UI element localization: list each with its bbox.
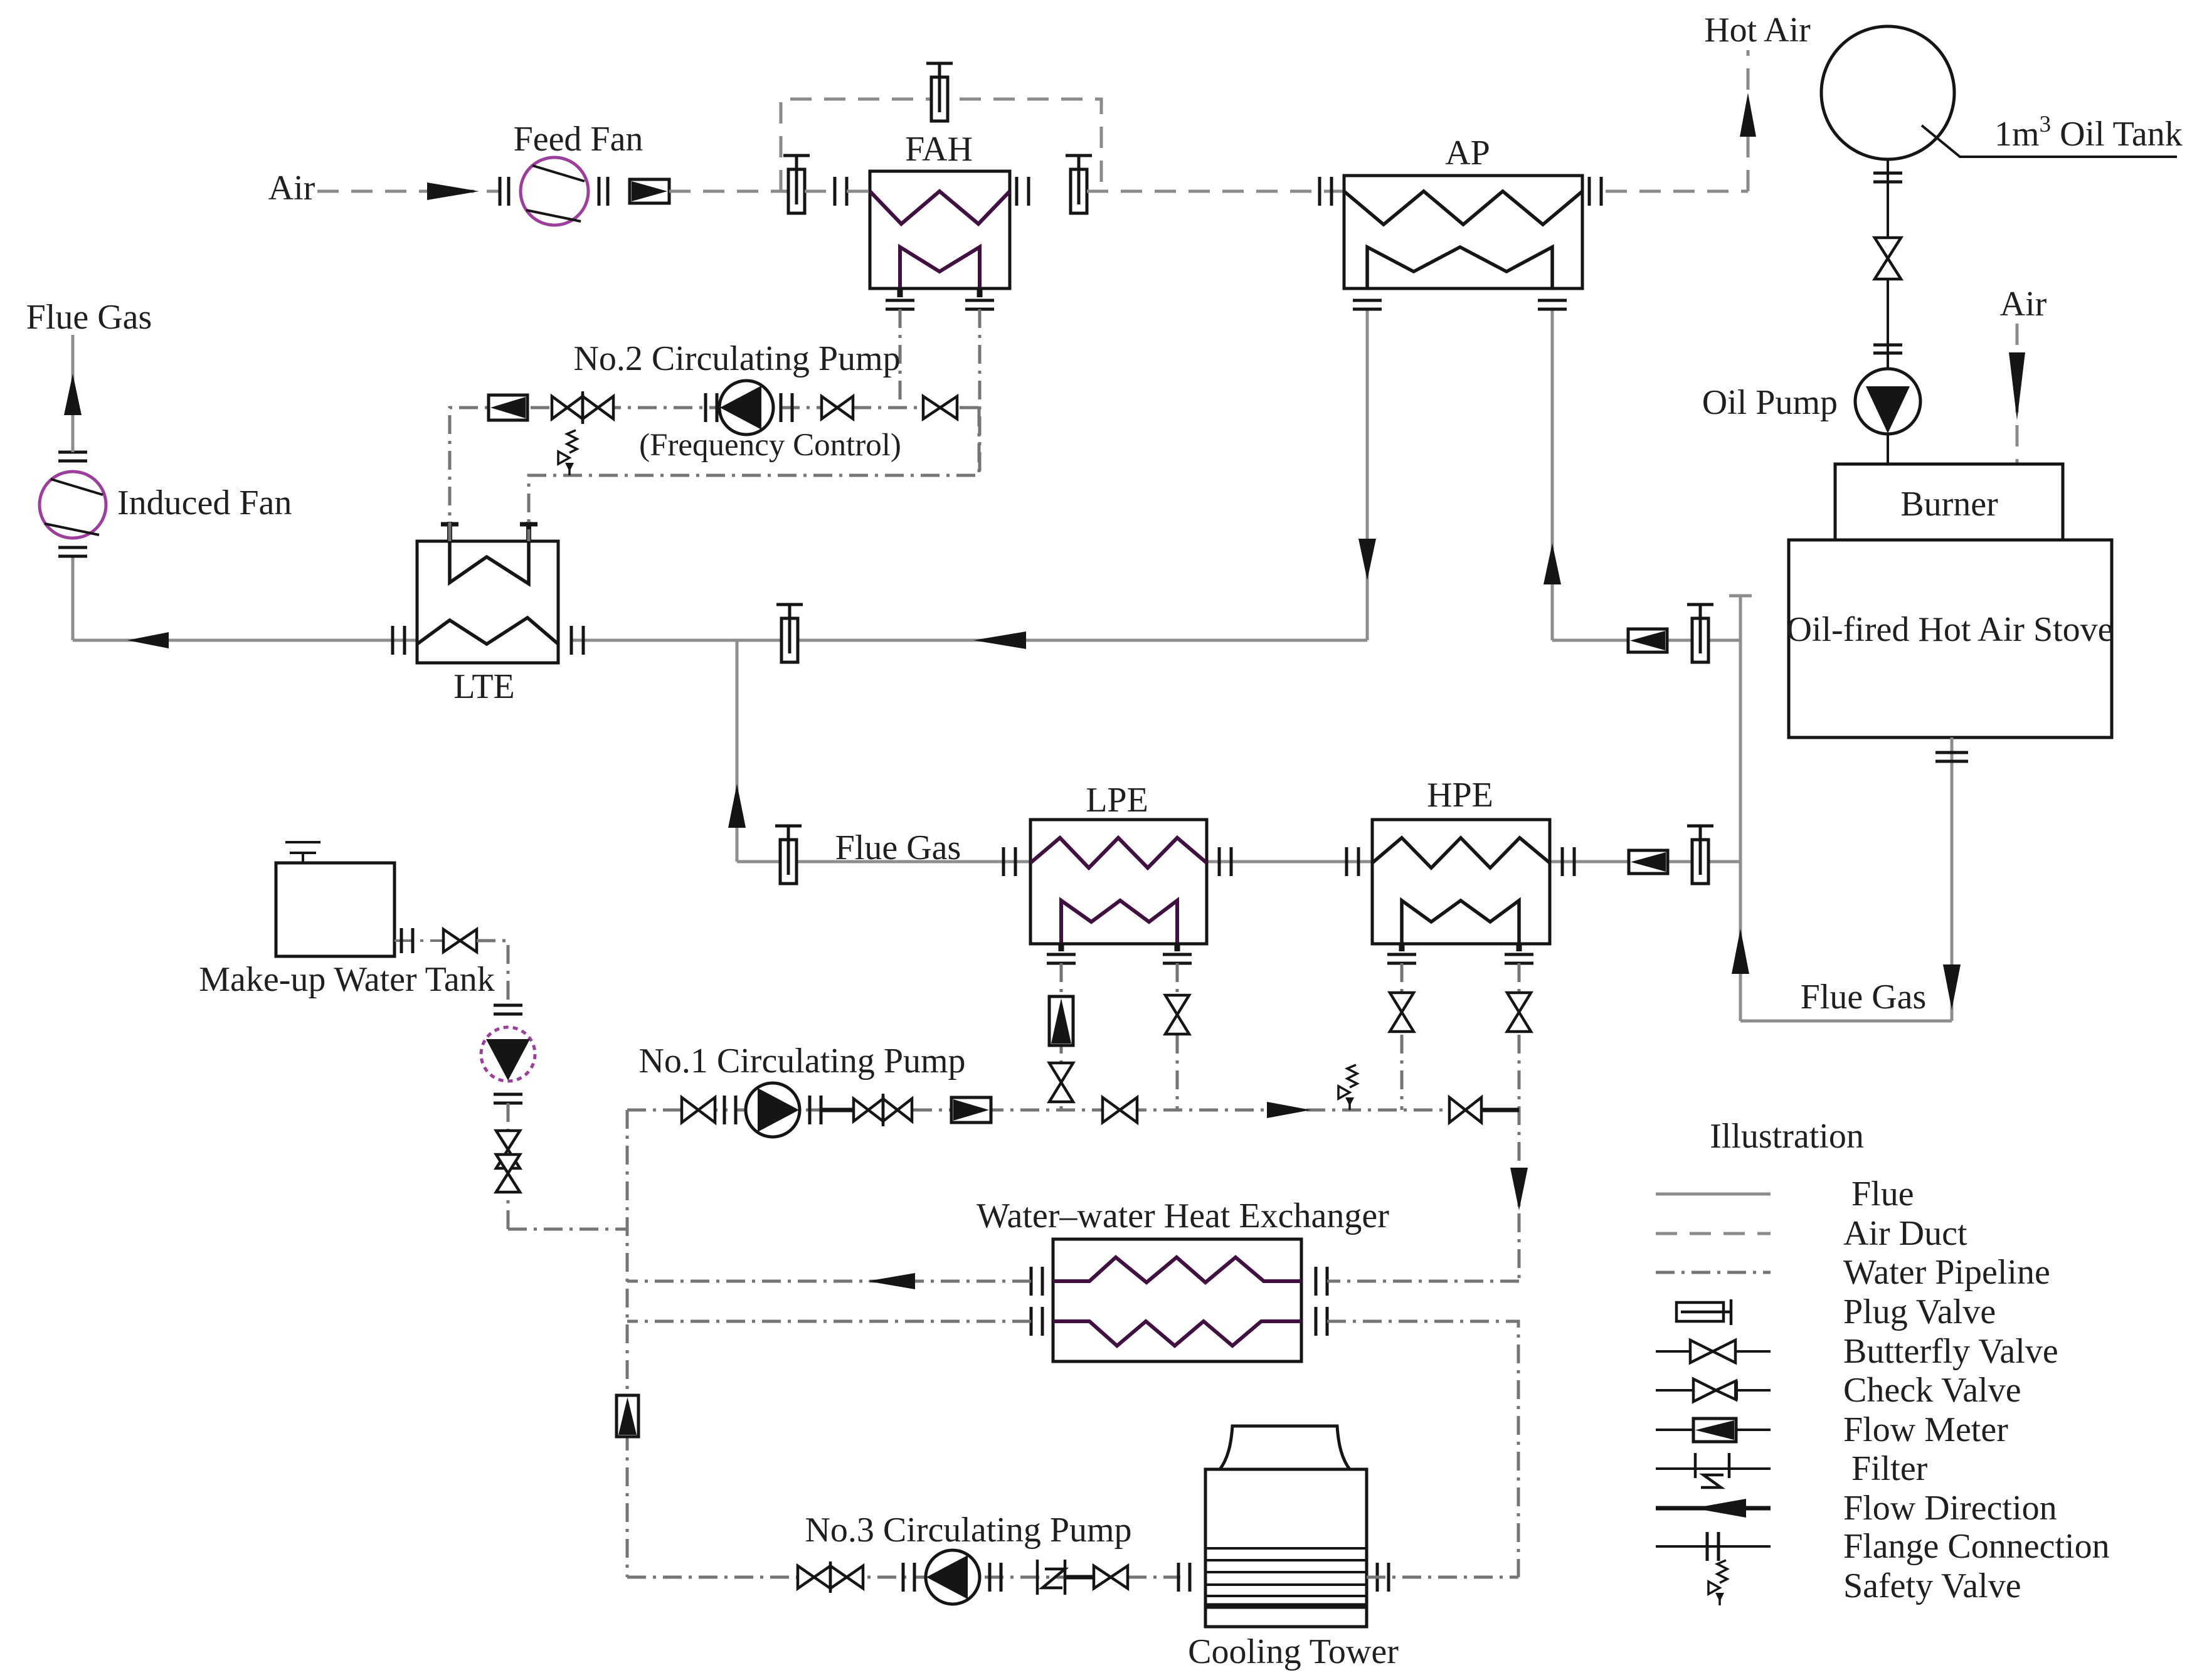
wire flue lower mid <box>1207 860 1372 864</box>
flange connection <box>1873 173 1902 182</box>
flow meter <box>1049 996 1073 1045</box>
AP air coil <box>1367 247 1552 288</box>
legend label Safety Valve <box>1843 1566 2021 1605</box>
wire water WWHE hot out <box>627 1280 1031 1283</box>
label No.2 Circulating Pump <box>573 339 900 378</box>
label Hot Air <box>1704 11 1811 50</box>
valve butterfly <box>443 929 477 952</box>
valve butterfly pair <box>854 1094 912 1126</box>
svg-text:AP: AP <box>1445 134 1490 172</box>
label Water-water Heat Exchanger <box>977 1197 1389 1235</box>
svg-text:Oil-fired Hot Air Stove: Oil-fired Hot Air Stove <box>1786 610 2113 649</box>
legend label Flow Meter <box>1843 1410 2008 1449</box>
flow direction arrow <box>1510 1168 1528 1210</box>
legend water pipeline symbol <box>1656 1271 1771 1274</box>
node HPE nozzle ticks <box>1402 943 1519 951</box>
flange connection <box>58 547 87 556</box>
HPE water coil <box>1402 901 1519 944</box>
wire water WWHE cold out <box>1327 1321 1518 1577</box>
node Air inlet label <box>268 169 315 208</box>
HPE gas coil zigzag <box>1372 838 1550 868</box>
svg-text:Oil Pump: Oil Pump <box>1702 383 1838 422</box>
svg-text:Flue Gas: Flue Gas <box>26 298 152 337</box>
legend label Air Duct <box>1843 1214 1967 1253</box>
wire flue lower right <box>1550 860 1740 864</box>
wire oil line <box>1887 159 1889 238</box>
wire tank outlet <box>394 939 443 942</box>
wire air duct inlet <box>317 190 499 193</box>
svg-text:Flange Connection: Flange Connection <box>1843 1527 2110 1566</box>
flange connection <box>1589 177 1601 206</box>
flange connection <box>706 393 717 422</box>
label Illustration <box>1710 1117 1864 1156</box>
label Frequency Control <box>639 428 901 463</box>
svg-text:No.2 Circulating Pump: No.2 Circulating Pump <box>573 339 900 378</box>
flange connection <box>571 626 583 655</box>
WWHE hot coil zigzag <box>1053 1257 1301 1282</box>
legend flange connection symbol <box>1656 1532 1771 1561</box>
valve butterfly <box>1390 993 1414 1032</box>
svg-text:Illustration: Illustration <box>1710 1117 1864 1156</box>
heat exchanger AP box <box>1344 176 1582 288</box>
vessel Make-up Water Tank <box>276 863 394 956</box>
valve butterfly <box>1507 993 1531 1032</box>
svg-text:Flue Gas: Flue Gas <box>1801 978 1927 1017</box>
svg-text:Feed Fan: Feed Fan <box>514 120 643 159</box>
flange connection <box>401 928 413 953</box>
wire water make-up run <box>508 1228 627 1231</box>
legend flue symbol <box>1656 1193 1771 1196</box>
valve butterfly <box>822 396 853 419</box>
svg-text:Flow Meter: Flow Meter <box>1843 1410 2008 1449</box>
flange connection <box>1031 1307 1042 1336</box>
flange connection <box>1347 847 1358 876</box>
heat exchanger HPE box <box>1372 820 1550 944</box>
valve plug V2 bypass <box>926 63 953 121</box>
wire thick to HPE drop <box>1481 1108 1519 1112</box>
node riser top tick <box>1729 594 1752 598</box>
flow direction arrow <box>1267 1102 1311 1118</box>
flange connection <box>1316 1267 1327 1296</box>
wire flue bottom run <box>1740 1020 1952 1023</box>
svg-text:Make-up Water Tank: Make-up Water Tank <box>199 960 495 999</box>
wire AP inlet stub <box>1366 309 1369 640</box>
svg-text:Water–water Heat Exchanger: Water–water Heat Exchanger <box>977 1197 1389 1235</box>
wire water tower return <box>1367 1576 1518 1579</box>
flange connection <box>1031 1267 1042 1296</box>
flow direction arrow <box>1943 964 1961 1010</box>
legend safety valve symbol <box>1708 1560 1727 1605</box>
legend butterfly valve symbol <box>1656 1340 1771 1363</box>
valve plug V3 <box>1066 156 1092 213</box>
flange connection <box>781 393 792 422</box>
heat exchanger FAH box <box>870 171 1010 288</box>
svg-text:Plug Valve: Plug Valve <box>1843 1292 1996 1331</box>
wire oil line <box>1887 280 1889 369</box>
node LTE nozzle ticks <box>441 522 537 541</box>
flange connection <box>1320 177 1332 206</box>
valve butterfly <box>1103 1097 1137 1123</box>
flange connection <box>1047 954 1192 963</box>
flange connection <box>1387 954 1533 963</box>
wire flue to induced fan <box>71 556 75 640</box>
node FAH nozzle ticks <box>900 287 980 297</box>
LPE water coil <box>1061 901 1177 944</box>
flange connection <box>724 1096 736 1124</box>
flow meter <box>630 179 669 203</box>
valve butterfly <box>923 396 957 419</box>
wire FAH bypass duct <box>781 99 1101 191</box>
label Oil Pump <box>1702 383 1838 422</box>
flow meter <box>617 1395 638 1437</box>
flow meter <box>1628 629 1667 652</box>
LTE gas coil zigzag <box>417 618 558 644</box>
valve plug V5 <box>776 605 803 662</box>
label AP <box>1445 134 1490 172</box>
label No.1 Circulating Pump <box>638 1042 965 1080</box>
cooling tower hood <box>1220 1426 1350 1469</box>
wire air duct <box>805 190 835 193</box>
label Flue Gas mid <box>835 828 961 867</box>
flow meter <box>489 395 527 420</box>
wire water header vertical <box>626 1110 629 1577</box>
legend plug valve symbol <box>1676 1299 1731 1325</box>
wire flue gas exit <box>71 335 75 452</box>
label Flue Gas exit <box>26 298 152 337</box>
legend flow direction symbol <box>1656 1499 1771 1518</box>
wire air duct <box>1087 190 1344 193</box>
flange connection <box>500 177 509 206</box>
wire water No.3 pump line <box>627 1576 1180 1579</box>
flow meter <box>951 1097 991 1123</box>
flow direction arrow <box>64 374 82 415</box>
flange connection <box>58 452 87 461</box>
flow direction arrow <box>427 182 479 200</box>
pump Oil Pump <box>1855 369 1920 434</box>
filter <box>1037 1560 1065 1595</box>
flow direction arrow <box>973 631 1026 649</box>
svg-text:Water Pipeline: Water Pipeline <box>1843 1253 2050 1292</box>
label Flue Gas stove <box>1801 978 1927 1017</box>
equipment Burner box <box>1835 464 2063 540</box>
FAH water coil <box>900 247 980 288</box>
valve butterfly pair <box>798 1561 863 1593</box>
valve plug V7 <box>1687 826 1713 884</box>
svg-text:Air Duct: Air Duct <box>1843 1214 1967 1253</box>
label Cooling Tower <box>1188 1632 1399 1671</box>
label LTE <box>453 667 514 706</box>
pump make-up <box>481 1027 535 1081</box>
valve butterfly <box>682 1097 715 1123</box>
flange connection <box>886 300 994 309</box>
wire air duct to burner <box>2016 324 2019 464</box>
svg-text:No.3 Circulating Pump: No.3 Circulating Pump <box>805 1511 1131 1550</box>
AP gas coil zigzag <box>1344 191 1582 225</box>
wire water No.2 return <box>529 408 979 541</box>
label No.3 Circulating Pump <box>805 1511 1131 1550</box>
pump No.3 Circulating Pump <box>926 1550 980 1604</box>
legend air duct symbol <box>1656 1232 1771 1235</box>
wire air duct to hot air <box>1606 190 1748 193</box>
svg-text:LPE: LPE <box>1086 781 1148 820</box>
fan Feed Fan <box>521 157 588 225</box>
equipment Cooling Tower <box>1205 1469 1367 1627</box>
wire water WWHE cold in <box>627 1320 1031 1323</box>
svg-text:Burner: Burner <box>1900 485 1998 524</box>
flow direction arrow <box>728 784 746 828</box>
wire water make-up <box>477 941 508 1003</box>
cooling tower fill decks <box>1205 1548 1367 1606</box>
svg-text:Induced Fan: Induced Fan <box>117 483 292 522</box>
valve butterfly pair <box>552 391 613 424</box>
svg-text:Flue Gas: Flue Gas <box>835 828 961 867</box>
node LPE nozzle ticks <box>1061 943 1177 951</box>
svg-text:Check Valve: Check Valve <box>1843 1371 2021 1410</box>
flow direction arrow <box>1543 543 1561 584</box>
heat exchanger LPE box <box>1030 820 1207 944</box>
svg-text:Butterfly Valve: Butterfly Valve <box>1843 1332 2058 1371</box>
svg-text:FAH: FAH <box>905 130 973 169</box>
flange connection <box>810 1096 821 1124</box>
legend flow meter symbol <box>1656 1418 1771 1442</box>
flange connection <box>494 1094 522 1103</box>
svg-text:HPE: HPE <box>1427 776 1493 815</box>
valve butterfly <box>1049 1063 1073 1102</box>
flow direction arrow <box>73 632 169 648</box>
wire flue riser <box>1739 596 1742 1021</box>
wire water drop FAH right <box>978 309 982 475</box>
safety valve <box>558 430 577 475</box>
label FAH <box>905 130 973 169</box>
fan Induced Fan <box>40 472 106 538</box>
legend label Check Valve <box>1843 1371 2021 1410</box>
svg-text:Hot Air: Hot Air <box>1704 11 1811 50</box>
label HPE <box>1427 776 1493 815</box>
tank vent <box>285 842 320 863</box>
legend label Plug Valve <box>1843 1292 1996 1331</box>
legend label Filter <box>1851 1449 1928 1488</box>
pump No.1 Circulating Pump <box>746 1083 800 1137</box>
svg-text:Flue: Flue <box>1851 1175 1914 1213</box>
flange connection <box>990 1563 1001 1592</box>
wire flue junction vertical <box>736 640 739 862</box>
legend label Flue <box>1851 1175 1914 1213</box>
label LPE <box>1086 781 1148 820</box>
flange connection <box>1873 345 1902 353</box>
wire water No.2 suction <box>450 408 979 541</box>
flange connection <box>1353 300 1382 309</box>
flow direction arrow <box>867 1273 915 1289</box>
FAH gas coil zigzag <box>870 191 1010 224</box>
wire thick <box>1066 1575 1094 1580</box>
safety valve <box>1338 1065 1357 1110</box>
svg-text:Cooling Tower: Cooling Tower <box>1188 1632 1399 1671</box>
flow direction arrow <box>1358 539 1376 580</box>
wire stove flue outlet <box>1951 737 1954 1021</box>
flange connection <box>1219 847 1231 876</box>
wire water No.1 pump line <box>627 1109 1449 1112</box>
heat exchanger WWHE box <box>1053 1239 1301 1361</box>
vessel Oil Tank <box>1821 26 1954 159</box>
wire flue upper left <box>127 639 417 642</box>
flange connection <box>903 1563 914 1592</box>
wire hot air duct <box>1747 50 1750 191</box>
wire pump discharge <box>821 1108 854 1112</box>
valve butterfly double <box>496 1131 520 1192</box>
wire flue lower left <box>737 860 1030 864</box>
svg-text:LTE: LTE <box>453 667 514 706</box>
equipment Oil-fired Hot Air Stove box <box>1789 540 2112 737</box>
WWHE cold coil zigzag <box>1053 1321 1301 1346</box>
valve check <box>1449 1097 1481 1123</box>
flow meter <box>1629 850 1668 874</box>
wire water drop HPE right <box>1518 963 1521 1281</box>
valve butterfly oil <box>1875 238 1901 279</box>
legend label Flange Connection <box>1843 1527 2110 1566</box>
wire AP outlet stub <box>1551 309 1554 640</box>
wire flue upper main <box>571 639 1367 642</box>
pump No.2 Circulating Pump <box>719 381 773 435</box>
svg-text:Air: Air <box>268 169 315 208</box>
flange connection <box>1017 177 1029 206</box>
LPE gas coil zigzag <box>1030 838 1207 868</box>
wire water drop FAH left <box>899 309 902 408</box>
legend label Flow Direction <box>1843 1489 2057 1528</box>
flange connection <box>1562 847 1574 876</box>
wire water WWHE hot in <box>1327 1280 1519 1283</box>
flange connection <box>393 626 405 655</box>
flange connection <box>599 177 608 206</box>
flow direction arrow riser <box>1732 929 1749 974</box>
wire flue upper right <box>1552 639 1740 642</box>
wire oil line to burner <box>1887 434 1889 464</box>
label Oil-fired Hot Air Stove <box>1786 610 2113 649</box>
wire air duct <box>669 190 789 193</box>
flange connection <box>1003 847 1015 876</box>
flange connection <box>1935 753 1968 761</box>
svg-text:Flow Direction: Flow Direction <box>1843 1489 2057 1528</box>
svg-text:1m3 Oil Tank: 1m3 Oil Tank <box>1994 112 2183 154</box>
valve check <box>1094 1566 1128 1588</box>
valve plug V4 <box>1687 605 1713 662</box>
flow direction arrow air <box>2009 352 2025 420</box>
svg-text:Filter: Filter <box>1851 1449 1928 1488</box>
svg-text:No.1 Circulating Pump: No.1 Circulating Pump <box>638 1042 965 1080</box>
legend filter symbol <box>1656 1453 1771 1487</box>
svg-text:Air: Air <box>2000 285 2047 324</box>
heat exchanger LTE box <box>417 541 558 663</box>
label Air right <box>2000 285 2047 324</box>
flange connection <box>494 1005 522 1014</box>
flow direction arrow hot air <box>1740 93 1756 137</box>
flange connection <box>1377 1563 1389 1592</box>
wire water drop LPE left <box>1060 963 1063 1110</box>
label Make-up Water Tank <box>199 960 495 999</box>
valve butterfly <box>1165 995 1189 1034</box>
label 1m3 Oil Tank <box>1994 112 2183 154</box>
flange connection <box>1538 300 1567 309</box>
svg-text:(Frequency Control): (Frequency Control) <box>639 428 901 463</box>
valve plug V6 <box>775 826 802 884</box>
label Induced Fan <box>117 483 292 522</box>
flange connection <box>1178 1563 1190 1592</box>
leader line oil tank <box>1922 125 2177 157</box>
wire water drop LPE right <box>1176 963 1179 1110</box>
legend label Butterfly Valve <box>1843 1332 2058 1371</box>
LTE water coil <box>450 541 529 584</box>
legend check valve symbol <box>1656 1379 1771 1402</box>
wire air duct <box>847 190 870 193</box>
flange connection <box>835 177 847 206</box>
wire water drop HPE left <box>1400 963 1404 1110</box>
flange connection <box>1316 1307 1327 1336</box>
legend label Water Pipeline <box>1843 1253 2050 1292</box>
label Burner <box>1900 485 1998 524</box>
label Feed Fan <box>514 120 643 159</box>
valve plug V1 <box>783 156 810 213</box>
svg-text:Safety Valve: Safety Valve <box>1843 1566 2021 1605</box>
wire water make-up drop <box>507 1103 510 1229</box>
